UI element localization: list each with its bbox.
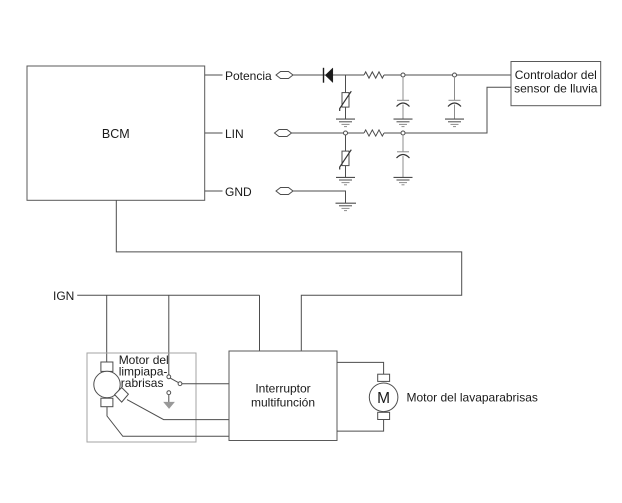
ground (below C3) <box>394 177 413 184</box>
pin stub LIN <box>205 132 223 134</box>
svg-text:multifunción: multifunción <box>251 395 315 409</box>
svg-text:Controlador del: Controlador del <box>515 68 597 82</box>
wire varistor to ground <box>345 166 347 178</box>
svg-text:GND: GND <box>225 185 252 199</box>
ground (below C2) <box>445 119 464 127</box>
capacitor C3 <box>397 152 410 158</box>
label Potencia <box>225 69 272 83</box>
pin stub Potencia <box>205 74 223 76</box>
ground (GND row) <box>336 203 357 210</box>
wire varistor to ground <box>345 107 347 119</box>
ground (below C1) <box>394 119 413 127</box>
svg-text:Potencia: Potencia <box>225 69 272 83</box>
wire IGN drop to park switch <box>168 295 170 375</box>
node (LIN / C3) <box>401 131 405 135</box>
varistor RV1 <box>340 91 352 111</box>
connector (LIN) <box>275 130 292 137</box>
wire GND connector to ground <box>293 191 346 203</box>
switch S1 (park switch) <box>167 375 182 395</box>
label IGN <box>53 289 74 303</box>
wire resistor to node <box>384 74 401 76</box>
node (Potencia / C1) <box>401 73 405 77</box>
wire motor winding to Interruptor (upper) <box>127 400 229 420</box>
svg-text:Motor del lavaparabrisas: Motor del lavaparabrisas <box>407 391 538 405</box>
capacitor C2 <box>448 100 461 106</box>
wire IGN horizontal <box>77 294 259 296</box>
label Motor del lavaparabrisas <box>407 391 538 405</box>
pin stub GND <box>205 190 223 192</box>
wire Interruptor to washer motor (top) <box>337 362 384 374</box>
wire node to resistor <box>348 132 365 134</box>
wire IGN drop to wiper motor <box>106 295 108 362</box>
diode D1 <box>324 68 333 83</box>
svg-text:IGN: IGN <box>53 289 74 303</box>
resistor R2 <box>364 130 384 136</box>
wire node down to C1 <box>402 77 404 100</box>
label GND <box>225 185 252 199</box>
wire park contact to ground <box>168 395 170 402</box>
motor M1 (wiper) <box>94 362 129 407</box>
resistor R1 <box>364 72 384 78</box>
wire resistor to node <box>384 132 401 134</box>
wire node right then up to controller <box>405 87 511 133</box>
svg-text:Interruptor: Interruptor <box>255 382 310 396</box>
wire C2 to ground <box>454 105 456 120</box>
ground (below RV2) <box>336 177 355 184</box>
varistor RV2 <box>340 150 352 170</box>
label LIN <box>225 127 244 141</box>
wire washer motor to Interruptor (bottom) <box>337 420 384 432</box>
connector (Potencia) <box>276 72 293 79</box>
wire node to node <box>405 74 453 76</box>
svg-text:BCM: BCM <box>102 127 130 141</box>
connector (GND) <box>276 188 293 195</box>
wire C3 to ground <box>402 156 404 177</box>
motor M2 (washer) <box>369 374 398 419</box>
capacitor C1 <box>397 100 410 106</box>
wire motor brush to Interruptor (lower) <box>107 407 229 437</box>
BCM box <box>27 66 205 200</box>
Motor del limpiaparabrisas box <box>87 353 196 442</box>
svg-text:rabrisas: rabrisas <box>121 376 164 390</box>
wire LIN node down to varistor <box>345 135 347 151</box>
wire C1 to ground <box>402 105 404 120</box>
svg-text:M: M <box>377 390 390 407</box>
wire connector to diode <box>293 74 346 76</box>
svg-text:sensor de lluvia: sensor de lluvia <box>514 82 598 96</box>
wire junction down to varistor <box>345 75 347 93</box>
Interruptor multifuncion box <box>229 351 337 441</box>
wire switch to Interruptor <box>182 383 229 385</box>
ground (park, chassis style) <box>163 402 175 409</box>
node (Potencia / C2) <box>453 73 457 77</box>
wire connector to node <box>292 132 344 134</box>
wire IGN drop to Interruptor <box>259 295 261 351</box>
Controlador del sensor de lluvia box <box>511 62 601 106</box>
ground (below RV1) <box>336 119 355 127</box>
wire node to controller <box>457 74 512 76</box>
node (LIN / RV2) <box>344 131 348 135</box>
svg-text:LIN: LIN <box>225 127 244 141</box>
wire diode to junction <box>346 74 365 76</box>
wire BCM to Interruptor (down, right, down, left, down) <box>116 200 461 351</box>
wire LIN node down to C3 <box>402 135 404 152</box>
wire node down to C2 <box>454 77 456 100</box>
